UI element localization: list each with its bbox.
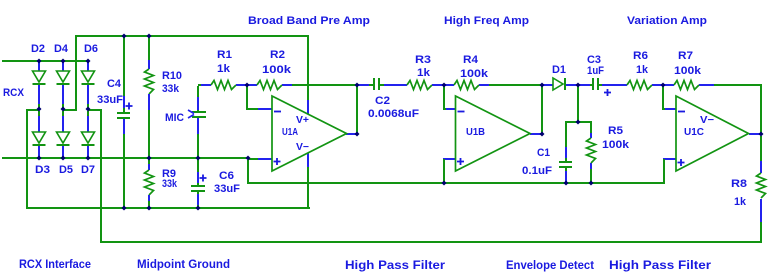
wire R2 right pin <box>282 84 292 86</box>
svg-text:33uF: 33uF <box>214 183 240 195</box>
svg-text:D4: D4 <box>54 43 69 55</box>
wire D1 anode lead <box>543 84 553 86</box>
wire R7 to output corner <box>699 84 762 86</box>
wire V+ top rail <box>75 35 309 37</box>
svg-text:C4: C4 <box>107 78 122 90</box>
label RCX Interface <box>19 257 91 271</box>
wire R4 to U1B feedback node <box>479 84 542 86</box>
diode D6 <box>82 43 99 109</box>
resistor R5 <box>587 125 630 163</box>
wire U1A inverting input <box>246 86 272 110</box>
wire RCX bottom / midpoint rail <box>2 157 248 159</box>
wire R1-R2 junction leads <box>236 84 257 86</box>
wire C2 to R3 <box>380 84 407 86</box>
svg-text:33k: 33k <box>162 83 180 95</box>
wire D1 cathode lead <box>566 84 578 86</box>
svg-text:Variation Amp: Variation Amp <box>627 15 707 27</box>
svg-text:33uF: 33uF <box>97 94 123 106</box>
capacitor C6 <box>191 159 240 207</box>
resistor R2 <box>257 49 292 90</box>
svg-text:D5: D5 <box>59 164 73 176</box>
wire mic to R1 <box>197 84 201 97</box>
svg-text:100k: 100k <box>262 64 292 76</box>
junction D1 cathode node <box>576 83 581 88</box>
svg-text:D3: D3 <box>35 164 50 176</box>
wire C1 bottom lead <box>565 168 567 182</box>
label High Pass Filter (right) <box>609 258 711 272</box>
junction R4 feedback node <box>540 83 545 88</box>
wire node A leads to C2 <box>358 84 373 86</box>
diode D4 <box>54 43 70 109</box>
diode D7 <box>81 111 95 176</box>
svg-text:R3: R3 <box>415 54 431 66</box>
junction C2 node <box>355 83 360 88</box>
svg-text:Broad Band Pre Amp: Broad Band Pre Amp <box>248 15 370 27</box>
capacitor C3 <box>587 54 611 96</box>
svg-text:0.1uF: 0.1uF <box>522 165 552 177</box>
svg-text:RCX Interface: RCX Interface <box>19 257 91 271</box>
junction R10/R9 midpoint <box>147 156 152 161</box>
svg-text:U1C: U1C <box>684 127 704 138</box>
wire D1 to C3 <box>578 84 593 86</box>
junction U1C output node <box>759 132 764 137</box>
microphone MIC <box>165 97 206 157</box>
junction U1A plus input <box>246 156 251 161</box>
wire U1C feedback vertical <box>760 84 762 134</box>
junction D5 bottom <box>61 156 66 161</box>
wire left vertical to V- rail <box>26 109 28 209</box>
svg-text:C1: C1 <box>537 147 550 159</box>
svg-text:R1: R1 <box>217 49 232 61</box>
svg-text:R10: R10 <box>162 70 182 82</box>
wire U1A output stub <box>346 133 357 135</box>
title Broad Band Pre Amp <box>248 15 370 27</box>
junction D6 top <box>86 59 91 64</box>
diode D5 <box>57 111 74 176</box>
capacitor C1 <box>522 147 572 177</box>
svg-text:D7: D7 <box>81 164 95 176</box>
wire bottom output rail <box>100 241 762 243</box>
junction D6/D7 midpoint <box>86 107 91 112</box>
svg-text:R6: R6 <box>633 50 648 62</box>
wire U1A feedback vertical <box>356 84 358 134</box>
junction C1 bottom <box>564 181 569 186</box>
wire long vertical to output rail <box>100 109 102 242</box>
junction top rail R10 <box>147 34 152 39</box>
junction D2/D3 midpoint <box>37 107 42 112</box>
svg-text:High Pass Filter: High Pass Filter <box>345 258 445 272</box>
resistor R10 <box>145 37 183 157</box>
junction D2 top <box>37 59 42 64</box>
wire U1B non-inverting input <box>443 158 456 182</box>
svg-text:R5: R5 <box>608 125 623 137</box>
svg-text:Midpoint Ground: Midpoint Ground <box>137 257 230 271</box>
junction D3 bottom <box>37 156 42 161</box>
svg-text:1k: 1k <box>217 63 231 75</box>
junction R6/R7 node <box>661 83 666 88</box>
wire C1 top lead <box>565 123 567 161</box>
wire U1C inverting input <box>662 86 676 110</box>
resistor R9 <box>145 159 178 207</box>
junction envelope split <box>576 120 581 125</box>
wire R2 to feedback node <box>292 84 357 86</box>
label High Pass Filter (left) <box>345 258 445 272</box>
svg-text:RCX: RCX <box>3 87 25 99</box>
svg-text:High Freq Amp: High Freq Amp <box>444 15 529 27</box>
junction R5 bottom <box>589 181 594 186</box>
junction D4 top <box>61 59 66 64</box>
svg-text:D1: D1 <box>552 64 566 76</box>
wire output node to R8 <box>760 136 762 173</box>
wire R8 to bottom rail <box>760 199 762 242</box>
svg-text:1k: 1k <box>734 196 747 208</box>
node RCX label <box>3 87 25 99</box>
resistor R1 <box>211 49 236 90</box>
svg-text:0.0068uF: 0.0068uF <box>368 108 419 120</box>
resistor R8 <box>731 173 766 208</box>
junction C4 bottom <box>122 206 127 211</box>
wire U1C non-inverting input <box>663 158 676 182</box>
label Midpoint Ground <box>137 257 230 271</box>
svg-text:100k: 100k <box>460 68 489 80</box>
diode D3 <box>33 111 51 176</box>
op-amp U1B <box>456 96 531 171</box>
wire R5 top lead <box>590 123 592 138</box>
wire U1C output stub <box>749 133 761 135</box>
svg-text:1k: 1k <box>417 67 431 79</box>
resistor R6 <box>627 50 652 90</box>
diode D2 <box>31 43 46 109</box>
resistor R3 <box>407 54 432 90</box>
wire U1A V- pin <box>307 153 309 207</box>
wire R3-R4 junction leads <box>432 84 454 86</box>
title High Freq Amp <box>444 15 529 27</box>
svg-text:R8: R8 <box>731 178 747 190</box>
svg-text:MIC: MIC <box>165 112 184 124</box>
wire jog D2/D3 midpoint left <box>26 109 39 111</box>
svg-text:Envelope Detect: Envelope Detect <box>506 258 594 272</box>
svg-text:R2: R2 <box>270 49 285 61</box>
junction U1B plus rail <box>442 181 447 186</box>
svg-text:1k: 1k <box>636 64 649 76</box>
junction R1/R2 node <box>245 83 250 88</box>
svg-text:R7: R7 <box>678 50 693 62</box>
svg-text:U1A: U1A <box>282 127 298 138</box>
wire midpoint reference rail <box>247 182 665 184</box>
wire RCX top line <box>2 60 89 62</box>
wire envelope node vertical <box>577 86 579 122</box>
svg-text:V−: V− <box>296 142 309 153</box>
op-amp U1A <box>272 96 347 171</box>
svg-text:High Pass Filter: High Pass Filter <box>609 258 711 272</box>
wire R1 left pin <box>201 84 211 86</box>
junction D4/D5 midpoint <box>61 107 66 112</box>
junction R9 bottom <box>147 206 152 211</box>
wire R5 bottom lead <box>590 163 592 182</box>
resistor R7 <box>674 50 702 90</box>
wire jog D6/D7 midpoint right <box>88 109 102 111</box>
junction top rail C4 <box>122 34 127 39</box>
wire jog D4/D5 midpoint to V+ rail <box>63 109 77 111</box>
svg-text:R4: R4 <box>463 54 479 66</box>
junction U1B output node <box>540 132 545 137</box>
wire midpoint-to-V+ vertical <box>75 37 77 111</box>
wire U1B inverting input <box>443 86 456 110</box>
op-amp U1C <box>676 96 749 171</box>
wire V- rail <box>26 207 310 209</box>
label Envelope Detect <box>506 258 594 272</box>
junction U1A output node <box>355 132 360 137</box>
svg-text:100k: 100k <box>602 139 630 151</box>
capacitor C2 <box>368 78 419 120</box>
junction R3/R4 node <box>442 83 447 88</box>
wire U1A V+ pin <box>307 37 309 114</box>
diode D1 <box>552 64 566 90</box>
svg-text:U1B: U1B <box>466 127 485 138</box>
wire U1B feedback vertical <box>541 86 543 134</box>
wire C3 to R6 <box>599 84 627 86</box>
title Variation Amp <box>627 15 707 27</box>
svg-text:V−: V− <box>700 115 714 126</box>
wire R6-R7 junction leads <box>652 84 674 86</box>
wire U1B output stub <box>530 133 542 135</box>
wire U1A non-inverting input <box>247 158 272 182</box>
svg-text:33k: 33k <box>162 178 178 190</box>
junction C6 bottom <box>196 206 201 211</box>
capacitor C4 <box>97 37 133 207</box>
junction MIC/C6 midpoint <box>196 156 201 161</box>
svg-text:1uF: 1uF <box>587 65 604 77</box>
svg-text:D2: D2 <box>31 43 45 55</box>
svg-text:V+: V+ <box>296 115 309 126</box>
junction D7 bottom <box>86 156 91 161</box>
wire envelope node split <box>565 121 592 123</box>
svg-text:100k: 100k <box>674 65 702 77</box>
svg-text:C6: C6 <box>219 170 234 182</box>
resistor R4 <box>454 54 489 90</box>
svg-text:D6: D6 <box>84 43 98 55</box>
svg-text:C2: C2 <box>375 95 390 107</box>
